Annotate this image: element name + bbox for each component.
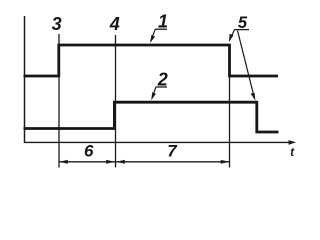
extension line right [229,46,231,168]
waveform 2 [24,102,279,132]
extension line 3 [58,34,60,168]
extension line 4 [115,35,117,168]
dimension line 7 [116,160,230,164]
label 1 [150,12,168,43]
waveform 1 [24,45,279,76]
dimension line 6 [59,160,116,164]
svg-text:7: 7 [167,142,178,161]
label 5 [229,14,256,101]
svg-text:3: 3 [52,14,62,34]
vertical axis [24,16,26,143]
label 2 [151,70,168,101]
svg-text:6: 6 [84,142,94,161]
svg-text:4: 4 [109,14,120,34]
time axis [24,141,290,143]
